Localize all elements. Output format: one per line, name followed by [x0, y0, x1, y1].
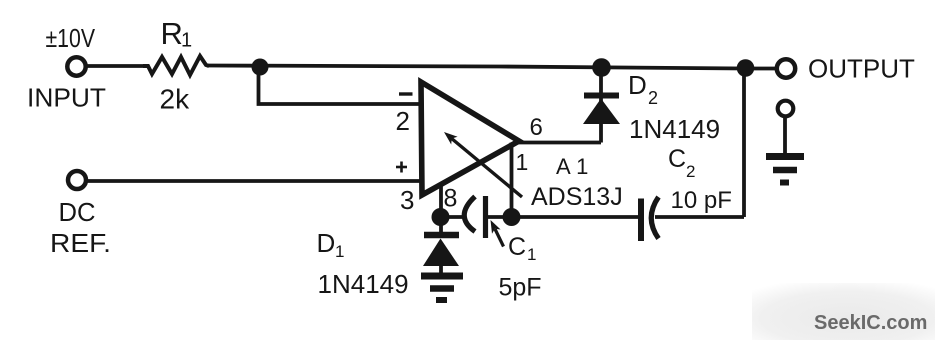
wire input to R1 — [86, 64, 146, 68]
svg-text:R: R — [161, 16, 183, 51]
wire right rail vertical — [742, 67, 746, 217]
svg-text:SeekIC.com: SeekIC.com — [814, 312, 927, 334]
svg-text:1: 1 — [335, 242, 344, 261]
svg-text:DC: DC — [59, 197, 96, 227]
label OUTPUT — [808, 54, 915, 84]
label R1 — [161, 16, 193, 52]
wire pin 1 to C1 right plate node — [510, 143, 514, 218]
svg-text:A1: A1 — [556, 154, 594, 179]
watermark SeekIC.com — [752, 283, 935, 340]
wire C1 to C2 — [483, 215, 639, 219]
label A1 — [556, 154, 594, 179]
svg-text:D: D — [628, 70, 647, 100]
label DC — [59, 197, 96, 227]
svg-text:REF.: REF. — [50, 228, 111, 258]
wire node to C1 — [441, 215, 464, 219]
capacitor C2 — [641, 197, 659, 241]
plus sign noninverting input — [396, 162, 407, 173]
wire pin 8 — [439, 183, 443, 217]
svg-text:2: 2 — [686, 162, 695, 181]
ground (output) — [766, 157, 804, 183]
capacitor C1 — [464, 196, 485, 238]
pin 1 label — [516, 149, 529, 175]
terminal OUTPUT — [777, 59, 795, 77]
label D2 — [628, 70, 658, 108]
label 2k — [160, 84, 191, 115]
svg-text:1N4149: 1N4149 — [629, 114, 720, 144]
terminal input ±10V — [67, 57, 85, 75]
terminal ground — [778, 101, 794, 156]
arrow C1 (trimmer) — [491, 220, 504, 247]
svg-text:3: 3 — [400, 185, 414, 215]
label D1 — [317, 228, 345, 261]
node B (D2 top) — [592, 58, 611, 77]
node pin 8 / C1 left — [432, 208, 450, 226]
pin 3 label — [400, 185, 414, 215]
svg-text:1: 1 — [527, 245, 536, 264]
resistor R1 — [143, 56, 209, 75]
label 1N4149 (D2) — [629, 114, 720, 144]
svg-text:C: C — [508, 233, 526, 261]
label INPUT — [27, 83, 106, 113]
svg-text:OUTPUT: OUTPUT — [808, 54, 915, 84]
svg-text:2: 2 — [396, 106, 410, 136]
svg-text:2: 2 — [648, 88, 658, 108]
diode D2 — [583, 66, 620, 143]
op-amp A1 triangle — [421, 82, 519, 195]
terminal DC REF — [68, 171, 86, 189]
svg-text:1: 1 — [516, 149, 529, 175]
wire C2 to right rail — [655, 215, 744, 219]
wire DC REF to noninverting input — [86, 179, 421, 183]
svg-text:6: 6 — [530, 114, 543, 141]
wire top rail — [207, 66, 778, 69]
svg-text:10 pF: 10 pF — [671, 187, 732, 214]
label REF. — [50, 228, 111, 258]
svg-text:1N4149: 1N4149 — [318, 269, 409, 299]
label ±10V — [46, 23, 96, 53]
annotation arrow to op-amp — [444, 132, 522, 197]
svg-text:INPUT: INPUT — [27, 83, 106, 113]
wire node A to inverting input — [259, 67, 422, 104]
svg-text:±10V: ±10V — [46, 23, 96, 53]
label C1 — [508, 233, 536, 264]
label C2 — [668, 145, 695, 181]
svg-text:5pF: 5pF — [499, 274, 542, 302]
svg-text:ADS13J: ADS13J — [531, 183, 623, 211]
svg-text:D: D — [317, 228, 336, 258]
pin 2 label — [396, 106, 410, 136]
label 1N4149 (D1) — [318, 269, 409, 299]
svg-text:C: C — [668, 145, 686, 173]
pin 6 label — [530, 114, 543, 141]
pin 8 label — [444, 185, 458, 213]
minus sign inverting input — [399, 92, 413, 95]
label 10 pF — [671, 187, 732, 214]
node pin 1 / C1 right — [503, 208, 521, 226]
svg-text:8: 8 — [444, 185, 458, 213]
svg-text:2k: 2k — [160, 84, 191, 115]
svg-text:1: 1 — [181, 30, 192, 52]
diode D1 — [423, 217, 459, 274]
node A (R1 / feedback junction) — [252, 59, 269, 76]
ground (D1) — [421, 276, 463, 300]
wire op-amp output — [516, 141, 601, 145]
label ADS13J — [531, 183, 623, 211]
label 5pF — [499, 274, 542, 302]
node C (output junction) — [737, 59, 755, 77]
